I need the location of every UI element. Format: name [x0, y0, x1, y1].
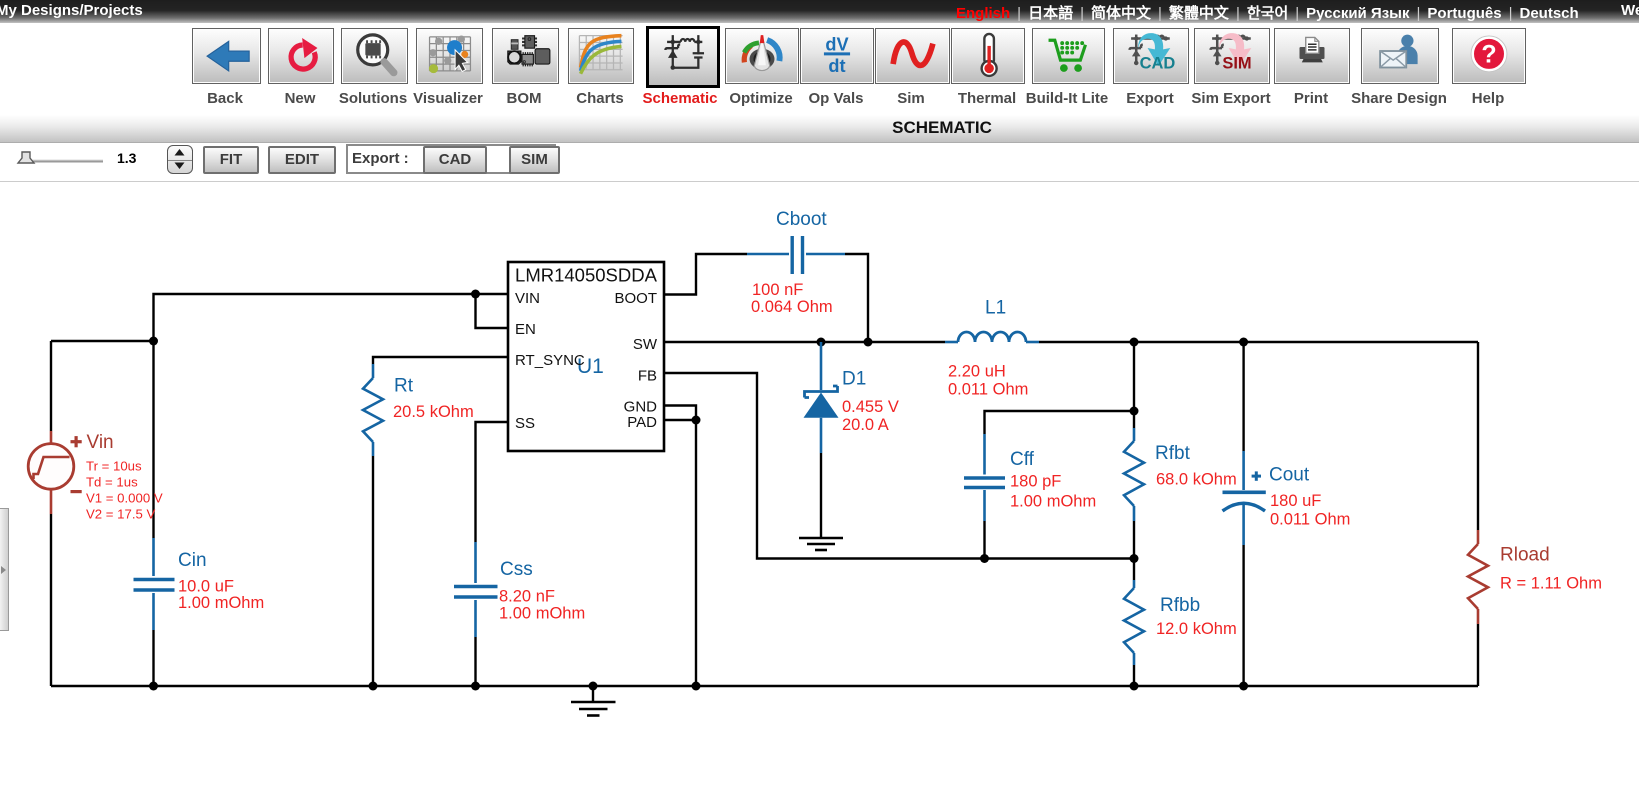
- label Rfbt name: [1155, 443, 1191, 464]
- label U1 designator: [577, 355, 604, 378]
- op-amp / regulator IC U1: [508, 262, 664, 451]
- label Cout name: [1269, 465, 1310, 486]
- wire D1 anode to ground: [820, 453, 822, 538]
- junction Css/rail: [471, 682, 480, 691]
- label Cff name: [1010, 449, 1035, 470]
- wire Cff to FB node: [983, 521, 985, 559]
- svg-text:D1: D1: [842, 369, 866, 390]
- pin BOOT: [614, 290, 657, 307]
- svg-text:Tr = 10us: Tr = 10us: [86, 459, 142, 474]
- pin SW: [633, 336, 658, 353]
- junction PAD/rail: [692, 682, 701, 691]
- junction Cff/FB: [980, 554, 989, 563]
- junction Cboot/SW: [864, 338, 873, 347]
- label Rfbb value: [1156, 620, 1237, 638]
- svg-text:SW: SW: [633, 336, 658, 353]
- junction D1/SW: [817, 338, 826, 347]
- controls row: [0, 142, 200, 182]
- wire input node horizontal: [51, 340, 154, 342]
- pin GND: [624, 399, 658, 416]
- pin FB: [638, 368, 657, 385]
- svg-text:BOOT: BOOT: [614, 290, 657, 307]
- wire RT_SYNC to Rt: [373, 357, 508, 364]
- label Rfbt value: [1156, 471, 1237, 489]
- svg-text:1.00 mOhm: 1.00 mOhm: [499, 605, 585, 623]
- capacitor Css: [454, 542, 498, 637]
- junction Rfbt/SW: [1130, 338, 1139, 347]
- svg-text:GND: GND: [624, 399, 658, 416]
- junction VIN/EN: [471, 290, 480, 299]
- wire Rfbb leads: [1133, 559, 1135, 687]
- svg-text:V1 = 0.000 V: V1 = 0.000 V: [86, 491, 163, 506]
- wire SS to Css: [476, 422, 509, 542]
- wire Rt to ground rail: [372, 456, 374, 686]
- svg-text:68.0 kOhm: 68.0 kOhm: [1156, 471, 1237, 489]
- svg-text:Cboot: Cboot: [776, 209, 827, 230]
- label Rload name: [1500, 545, 1550, 566]
- svg-text:2.20 uH: 2.20 uH: [948, 363, 1006, 381]
- pin PAD: [627, 414, 657, 431]
- pin SS: [515, 415, 535, 432]
- wire Vin+ up to input node: [50, 341, 52, 431]
- junction Cin/rail: [149, 682, 158, 691]
- resistor Rfbt: [1124, 428, 1144, 521]
- svg-text:0.064 Ohm: 0.064 Ohm: [751, 298, 833, 316]
- svg-text:20.5 kOhm: 20.5 kOhm: [393, 403, 474, 421]
- schematic title bar: [0, 115, 1639, 143]
- wire Rfbt leads: [1133, 411, 1135, 559]
- wire Css to ground rail: [474, 637, 476, 686]
- label Cin name: [178, 550, 207, 571]
- wire ground rail (bottom): [51, 685, 1478, 687]
- wire Vout node down to Cff tee: [1133, 342, 1135, 411]
- svg-text:VIN: VIN: [515, 290, 540, 307]
- svg-text:PAD: PAD: [627, 414, 657, 431]
- svg-text:Cff: Cff: [1010, 449, 1035, 470]
- svg-text:FB: FB: [638, 368, 657, 385]
- svg-text:Rfbt: Rfbt: [1155, 443, 1191, 464]
- svg-text:Rt: Rt: [394, 376, 414, 397]
- svg-text:Cout: Cout: [1269, 465, 1310, 486]
- label D1 values: [842, 398, 899, 434]
- label Vin name: [87, 432, 114, 453]
- ground (system, on rail): [571, 682, 616, 716]
- label D1 name: [842, 369, 866, 390]
- wire Cff tee horizontal: [985, 411, 1135, 434]
- wire SW rail: [664, 341, 1478, 343]
- resistor Rload: [1468, 530, 1488, 624]
- svg-text:180 pF: 180 pF: [1010, 473, 1061, 491]
- label Rload value: [1500, 575, 1602, 593]
- svg-text:Td = 1us: Td = 1us: [86, 475, 138, 490]
- junction GND/PAD: [692, 416, 701, 425]
- wire BOOT to Cboot: [664, 254, 747, 295]
- svg-text:V2 = 17.5 V: V2 = 17.5 V: [86, 507, 155, 522]
- collapsed left panel tab: [0, 508, 9, 631]
- ground (D1 anode): [799, 538, 843, 550]
- wire Cout leads: [1242, 342, 1244, 686]
- svg-text:Cin: Cin: [178, 550, 207, 571]
- svg-text:LMR14050SDDA: LMR14050SDDA: [515, 265, 658, 286]
- wire Vin- to ground rail: [50, 514, 52, 686]
- svg-text:Vin: Vin: [87, 432, 114, 453]
- label Rt name: [394, 376, 414, 397]
- label Rfbb name: [1160, 595, 1200, 616]
- wire input node down to Cin: [152, 341, 154, 538]
- resistor Rt: [363, 364, 383, 456]
- label Css values: [499, 588, 585, 623]
- capacitor Cout (polarized): [1223, 451, 1266, 545]
- svg-text:12.0 kOhm: 12.0 kOhm: [1156, 620, 1237, 638]
- label Cff values: [1010, 473, 1096, 511]
- svg-text:EN: EN: [515, 321, 536, 338]
- diode D1 (schottky): [804, 342, 839, 453]
- capacitor Cboot: [747, 236, 845, 274]
- svg-text:Rload: Rload: [1500, 545, 1550, 566]
- label Cboot values: [751, 281, 833, 316]
- inductor L1: [945, 332, 1039, 342]
- wire Vout to Rload: [1477, 342, 1479, 530]
- wire Cin to ground rail: [152, 630, 154, 686]
- junction Rfbb/rail: [1130, 682, 1139, 691]
- svg-text:Rfbb: Rfbb: [1160, 595, 1200, 616]
- label L1 values: [948, 363, 1028, 399]
- wire GND pin to PAD: [664, 406, 696, 421]
- svg-text:100 nF: 100 nF: [752, 281, 803, 299]
- junction Cff-tee/Rfbt: [1130, 407, 1139, 416]
- wire Rload to ground rail: [1477, 624, 1479, 686]
- svg-text:L1: L1: [985, 298, 1006, 319]
- svg-text:1.00 mOhm: 1.00 mOhm: [178, 594, 264, 612]
- label Rt value: [393, 403, 474, 421]
- svg-text:SS: SS: [515, 415, 535, 432]
- svg-text:0.011 Ohm: 0.011 Ohm: [948, 381, 1028, 399]
- wire PAD to ground rail: [695, 420, 697, 686]
- label L1 name: [985, 298, 1006, 319]
- wire EN branch: [476, 294, 509, 328]
- wire input node up-right to VIN pin: [154, 294, 509, 341]
- junction Rt/rail: [369, 682, 378, 691]
- label Cout values: [1270, 492, 1350, 529]
- resistor Rfbb: [1124, 580, 1144, 665]
- label Cboot name: [776, 209, 827, 230]
- wire FB to feedback node: [664, 373, 1134, 559]
- svg-text:10.0 uF: 10.0 uF: [178, 578, 234, 596]
- svg-text:1.00 mOhm: 1.00 mOhm: [1010, 493, 1096, 511]
- label Vin params: [86, 459, 163, 522]
- svg-text:Css: Css: [500, 559, 533, 580]
- junction Cout/SW: [1239, 338, 1248, 347]
- wire PAD pin: [664, 419, 696, 421]
- label Css name: [500, 559, 533, 580]
- pin VIN: [515, 290, 540, 307]
- svg-text:0.011 Ohm: 0.011 Ohm: [1270, 511, 1350, 529]
- svg-text:20.0 A: 20.0 A: [842, 416, 889, 434]
- label Cin values: [178, 578, 264, 613]
- capacitor Cff: [964, 434, 1005, 521]
- capacitor Cin: [134, 538, 175, 630]
- junction Cout/rail: [1239, 682, 1248, 691]
- pin RT_SYNC: [515, 352, 585, 369]
- voltage source Vin: [28, 431, 81, 514]
- junction input node: [149, 337, 158, 346]
- svg-text:RT_SYNC: RT_SYNC: [515, 352, 585, 369]
- svg-text:8.20 nF: 8.20 nF: [499, 588, 555, 606]
- junction Rfbt/Rfbb/FB: [1130, 554, 1139, 563]
- pin EN: [515, 321, 536, 338]
- svg-text:R = 1.11 Ohm: R = 1.11 Ohm: [1500, 575, 1602, 593]
- wire Cboot to SW node: [845, 254, 868, 342]
- svg-text:180 uF: 180 uF: [1270, 492, 1321, 510]
- svg-text:0.455 V: 0.455 V: [842, 398, 899, 416]
